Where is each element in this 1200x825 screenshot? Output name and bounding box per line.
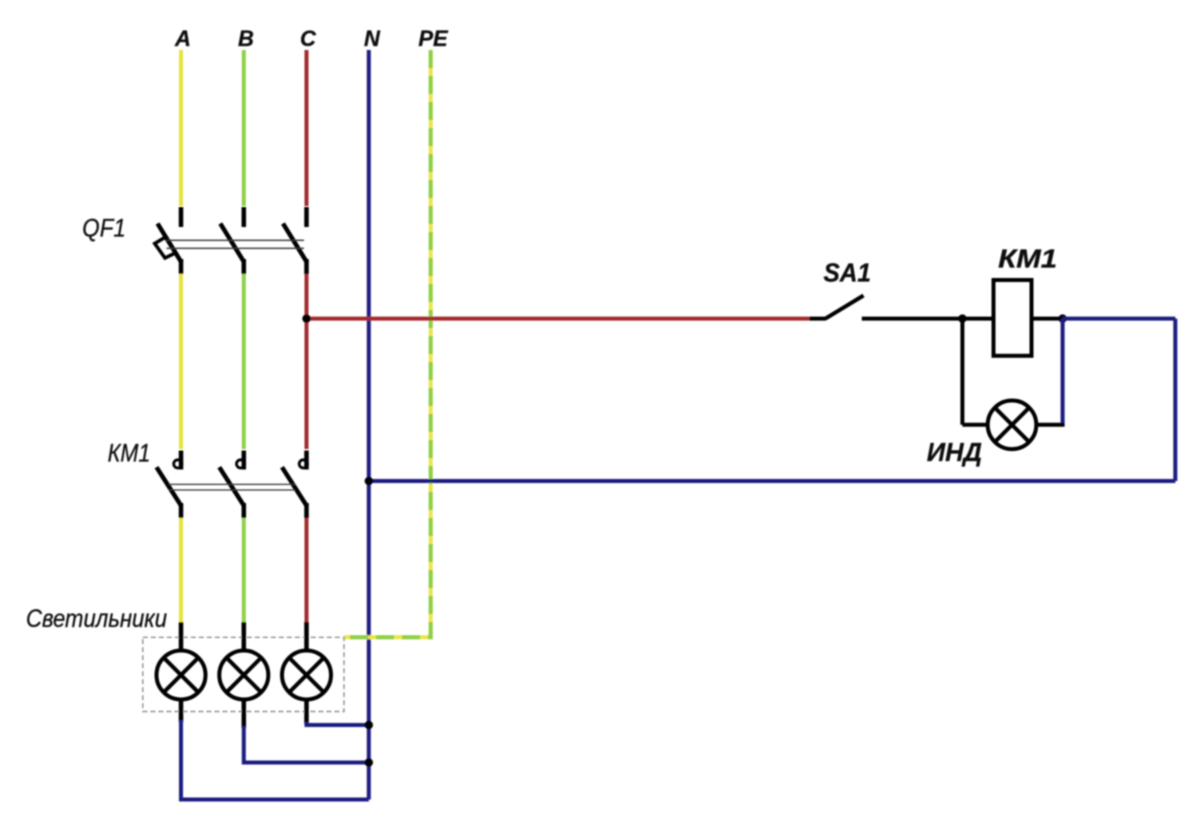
svg-text:C: C [300,26,317,51]
contactor KM1 pole A bottom stub [179,503,184,518]
svg-text:N: N [364,26,381,51]
lamp ИНД circle [988,401,1037,450]
wire phase C middle (red) [305,274,309,449]
breaker QF1 pole A top stub [179,207,184,227]
switch SA1 blade [826,296,864,319]
svg-text:A: A [174,26,191,51]
junction dot at C tap [302,314,310,322]
lamp ИНД cross [995,408,1029,442]
wire lamp EL2 return (blue) [244,726,369,763]
contactor KM1 pole C top stub [304,451,309,470]
lamp EL1 circle [157,651,206,700]
svg-text:B: B [238,26,254,51]
contactor KM1 pole C arc [299,460,307,468]
breaker QF1 pole A bottom stub [179,259,184,274]
coil KM1 rectangle [994,280,1032,356]
junction dot on N at return [365,477,373,485]
wire phase C top (red) [305,50,309,206]
luminaires dashed enclosure [143,637,344,711]
contactor KM1 pole A blade [157,467,182,506]
junction dot left of coil [958,314,966,322]
lamp EL1 bottom stub [179,700,184,723]
breaker QF1 pole B blade [220,224,244,263]
lamp EL2 circle [219,651,268,700]
wire coil right to junction [1032,317,1065,321]
contactor KM1 pole B blade [219,467,244,506]
lamp EL1 top stub [179,622,184,651]
wire indicator left branch horizontal [962,423,988,427]
contactor KM1 pole B bottom stub [242,503,247,518]
svg-text:QF1: QF1 [82,215,126,243]
wire SA1 to coil KM1 [862,317,994,321]
lamp EL2 cross [227,658,262,693]
contactor KM1 pole B arc [237,460,245,468]
wire lamp EL1 return (blue) [181,720,369,800]
contactor KM1 pole A arc [174,460,182,468]
svg-text:КМ1: КМ1 [108,440,151,468]
contactor KM1 linkage lines [169,484,296,490]
wire PE yellow base [344,50,431,637]
lamp EL3 bottom stub [304,700,309,725]
wire phase A middle (yellow) [179,274,183,449]
breaker QF1 pole C bottom stub [304,259,309,274]
wire control red from C to SA1 [307,317,810,321]
lamp EL2 top stub [242,622,247,651]
junction dot EL2 return on N [365,758,373,766]
breaker QF1 pole C blade [283,224,307,263]
breaker QF1 release rectangle [155,237,176,258]
svg-text:PE: PE [418,26,449,51]
svg-text:ИНД: ИНД [927,437,983,467]
breaker QF1 linkage lines [167,240,305,248]
junction dot EL3 return on N [365,721,373,729]
wire phase A lower (yellow) [179,518,183,622]
breaker QF1 pole B bottom stub [242,259,247,274]
wire indicator left branch vertical [960,319,964,425]
wire indicator right branch horizontal [1036,423,1064,427]
wire phase C lower (red) [305,518,309,622]
svg-text:SA1: SA1 [824,258,872,288]
lamp EL1 cross [164,658,199,693]
breaker QF1 pole C top stub [304,207,309,227]
contactor KM1 pole C blade [282,467,307,506]
lamp EL3 circle [282,651,331,700]
wire phase B middle (green) [242,274,246,449]
lamp EL2 bottom stub [242,700,247,729]
wire coil to right edge (blue) [1063,317,1176,321]
wire indicator right branch vertical (blue) [1061,319,1065,423]
wire neutral N (blue) [367,50,371,800]
contactor KM1 pole A top stub [179,451,184,470]
wire return to neutral (blue) [369,479,1176,483]
wire phase B top (green) [242,50,246,206]
wire right edge vertical (blue) [1173,319,1177,481]
lamp EL3 cross [289,658,324,693]
breaker QF1 pole A blade [158,224,182,263]
wire PE green dashes [344,50,431,637]
wire phase A top (yellow) [179,50,183,206]
lamp EL3 top stub [304,622,309,651]
switch SA1 left contact [809,317,826,321]
junction dot right of coil [1058,314,1066,322]
contactor KM1 pole B top stub [242,451,247,470]
breaker QF1 pole B top stub [242,207,247,227]
contactor KM1 pole C bottom stub [304,503,309,518]
svg-text:КМ1: КМ1 [998,244,1057,274]
svg-text:Светильники: Светильники [26,605,167,633]
wire phase B lower (green) [242,518,246,622]
wire lamp EL3 return (blue) [307,722,369,725]
